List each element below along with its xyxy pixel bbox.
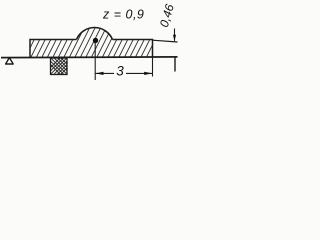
top line extension right of plate [153, 40, 178, 42]
small cross-hatched square [43, 57, 78, 75]
left arrowhead [95, 72, 103, 75]
baseline (long horizontal line) [1, 56, 178, 59]
hatching of plate and weld bead [14, 25, 168, 58]
weld center dot [93, 38, 98, 43]
right bottom tick [174, 57, 176, 71]
right arrowhead [144, 72, 152, 75]
plate outline [30, 40, 153, 58]
dimension extension line from dot [94, 42, 96, 80]
svg-text:z = 0,9: z = 0,9 [102, 8, 144, 22]
left support triangle [6, 58, 14, 64]
weld bead outline [77, 27, 113, 39]
svg-text:3: 3 [116, 64, 124, 79]
dimension line "3" [96, 72, 115, 74]
dimension extension line at plate right edge [152, 57, 154, 77]
down arrow for 0,46 [174, 29, 176, 41]
background [0, 0, 182, 92]
